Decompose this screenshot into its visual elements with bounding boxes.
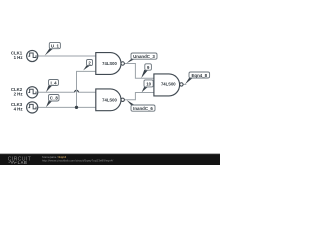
pin label 10 bbox=[144, 80, 153, 87]
NAND gate U1A 74LS00 bbox=[96, 53, 125, 75]
svg-text:74LS00: 74LS00 bbox=[161, 82, 176, 87]
leader for label I_4 bbox=[46, 85, 52, 92]
clock source CLK1 bbox=[27, 50, 38, 61]
net label Eqn4_8 bbox=[189, 72, 210, 78]
svg-text:http://www.circuitlab.com/circ: http://www.circuitlab.com/circuit/5qwy7u… bbox=[42, 159, 113, 163]
leader for label C_8 bbox=[46, 101, 52, 108]
svg-text:InandC_6: InandC_6 bbox=[133, 106, 153, 111]
node label U_1 bbox=[49, 42, 60, 48]
svg-text:C_8: C_8 bbox=[50, 96, 59, 101]
svg-text:2 Hz: 2 Hz bbox=[14, 91, 24, 96]
node label I_4 bbox=[49, 80, 59, 86]
node label C_8 bbox=[49, 95, 60, 102]
wire node C branch up to U1A input pin 2 bbox=[77, 71, 96, 107]
wire CLK3 to U1B input (pin 5) bbox=[38, 106, 96, 108]
pin label 9 bbox=[145, 64, 152, 70]
leader for pin 10 bbox=[142, 87, 148, 93]
svg-text:1 Hz: 1 Hz bbox=[14, 55, 24, 60]
pin label 2 bbox=[87, 60, 93, 66]
leader for label U_1 bbox=[45, 49, 54, 56]
NAND gate U1C 74LS00 bbox=[154, 74, 183, 96]
clock source CLK3 bbox=[27, 102, 38, 113]
svg-text:I_4: I_4 bbox=[50, 80, 57, 85]
wire CLK1 to U1A input 1 bbox=[38, 55, 96, 57]
net label InandC_6 bbox=[131, 105, 155, 111]
wire CLK2 to U1B input (pin 4), with hop gap at x=76.5 bbox=[38, 91, 96, 93]
svg-text:U_1: U_1 bbox=[51, 43, 60, 48]
svg-text:4 Hz: 4 Hz bbox=[14, 106, 24, 111]
svg-text:Eqn4_8: Eqn4_8 bbox=[191, 73, 207, 78]
svg-text:74LS00: 74LS00 bbox=[102, 97, 117, 102]
svg-text:UnandC_3: UnandC_3 bbox=[133, 54, 155, 59]
svg-text:74LS00: 74LS00 bbox=[102, 61, 117, 66]
footer attribution bar bbox=[0, 154, 220, 165]
leader for pin 9 bbox=[141, 70, 148, 78]
wire U1A output to U1C input pin 9 bbox=[124, 64, 153, 79]
CircuitLab logo bbox=[8, 156, 31, 164]
leader for label InandC_6 bbox=[127, 100, 135, 105]
svg-text:10: 10 bbox=[146, 82, 151, 87]
leader for pin 2 bbox=[83, 65, 90, 70]
NAND gate U1B 74LS00 bbox=[96, 89, 125, 111]
leader for label Eqn4_8 bbox=[185, 78, 193, 84]
wire U1B output to U1C input pin 10 bbox=[124, 93, 153, 100]
svg-text:LAB: LAB bbox=[18, 160, 28, 165]
clock source CLK2 bbox=[27, 87, 38, 98]
net label UnandC_3 bbox=[131, 53, 157, 59]
junction on CLK3 net bbox=[75, 106, 78, 109]
wire U1C output bbox=[183, 83, 186, 85]
leader for label UnandC_3 bbox=[126, 59, 135, 64]
wire hop over node C bbox=[75, 90, 79, 92]
